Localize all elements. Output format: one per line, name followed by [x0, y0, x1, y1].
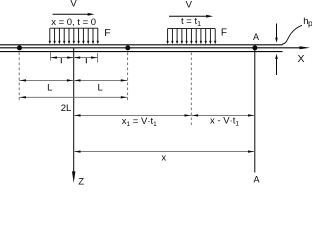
svg-text:F: F	[104, 27, 110, 39]
label l right	[85, 58, 87, 63]
svg-text:V: V	[70, 0, 77, 10]
node left support dot	[17, 45, 22, 50]
l dimension left span	[50, 56, 73, 58]
l dimension extension bars	[49, 52, 51, 61]
x dimension	[74, 150, 255, 152]
x - Vt1 dimension	[191, 114, 255, 116]
dashed extension right support	[127, 53, 129, 102]
distributed load left (F)	[49, 28, 99, 44]
svg-text:x: x	[161, 152, 166, 163]
Z axis arrowhead	[72, 171, 75, 183]
svg-text:p: p	[308, 18, 312, 28]
l dimension right span	[74, 56, 98, 58]
svg-text:F: F	[221, 27, 227, 38]
svg-text:V: V	[186, 0, 193, 10]
beam middle line	[0, 47, 301, 49]
svg-text:X: X	[297, 53, 304, 65]
dashed extension right load centre	[190, 53, 192, 126]
dashed extension left support	[18, 53, 20, 102]
L dimension right span	[74, 79, 128, 81]
2L dimension	[19, 96, 127, 98]
plate thickness up arrow	[276, 59, 278, 75]
beam top line	[0, 44, 283, 46]
A vertical line	[254, 48, 256, 173]
svg-text:2L: 2L	[61, 103, 72, 114]
node A dot	[252, 45, 257, 50]
svg-text:Z: Z	[78, 176, 84, 186]
svg-text:x = 0, t = 0: x = 0, t = 0	[51, 17, 96, 28]
node right support dot	[125, 45, 130, 50]
svg-text:A: A	[253, 174, 259, 184]
label l left	[60, 58, 62, 63]
velocity arrow left	[53, 13, 89, 15]
svg-text:A: A	[253, 32, 259, 42]
svg-text:L: L	[47, 83, 52, 94]
velocity arrow right	[169, 15, 207, 17]
x1 dimension	[74, 114, 192, 116]
beam bottom line	[0, 51, 283, 53]
plate thickness down arrow	[276, 24, 278, 39]
svg-text:L: L	[98, 83, 103, 94]
X axis arrowhead	[300, 46, 311, 49]
svg-text:x - V·t1: x - V·t1	[210, 116, 239, 128]
L dimension left span	[19, 79, 73, 81]
hp leader curve	[282, 25, 302, 44]
center axis line (x=0)	[73, 48, 75, 172]
distributed load right (F)	[166, 29, 216, 45]
